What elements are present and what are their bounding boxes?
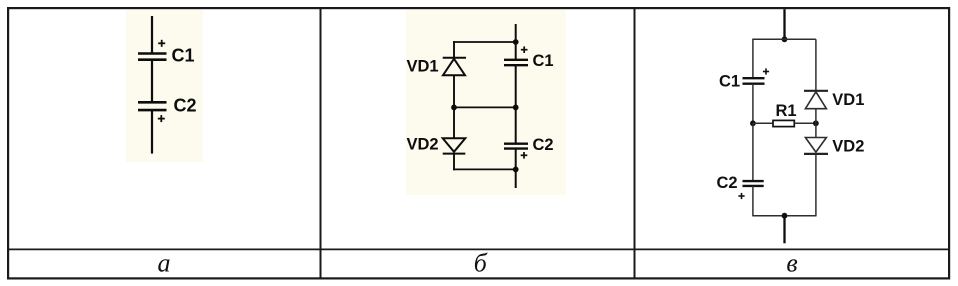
wire: panel в right branch lower segment <box>815 154 817 217</box>
capacitor C2 (panel а) <box>138 102 167 110</box>
wire: panel в top external lead <box>783 9 785 39</box>
polarity + of C1 (panel в) <box>763 68 769 74</box>
svg-text:VD2: VD2 <box>832 137 864 155</box>
svg-text:а: а <box>158 249 171 278</box>
diode VD1 (panel в) <box>804 91 828 109</box>
svg-text:VD1: VD1 <box>407 57 439 75</box>
svg-text:VD1: VD1 <box>832 91 864 109</box>
junction: panel в middle-left node <box>750 120 756 126</box>
wire: panel а segment between C1 and C2 <box>151 60 153 103</box>
wire: panel б left branch lower segment <box>453 154 455 171</box>
capacitor C2 (panel б) <box>504 144 528 149</box>
wire: panel б top rail <box>453 41 516 43</box>
capacitor C1 (panel б) <box>504 60 528 65</box>
svg-text:C2: C2 <box>533 136 554 154</box>
diode VD1 (panel б) <box>443 58 466 75</box>
capacitor C2 (panel в) <box>743 181 764 186</box>
svg-text:VD2: VD2 <box>407 136 439 154</box>
wire: panel б middle rail <box>454 106 516 108</box>
svg-text:R1: R1 <box>776 102 797 120</box>
wire: panel в left branch upper segment <box>752 39 754 78</box>
junction: panel в top node <box>782 36 788 42</box>
junction: panel в bottom node <box>782 213 788 219</box>
svg-text:C1: C1 <box>172 46 195 66</box>
wire: panel б left branch upper segment <box>453 41 455 57</box>
wire: panel в bottom rail <box>753 215 816 217</box>
wire: panel в left branch between middle rail and C2 <box>752 123 754 180</box>
wire: panel б left branch middle segment <box>453 75 455 138</box>
polarity + of C1 (panel а) <box>158 40 165 47</box>
polarity + of C2 (panel а) <box>158 115 165 122</box>
junction: panel б top node <box>513 39 519 45</box>
wire: panel б top external lead <box>515 24 517 42</box>
svg-text:б: б <box>474 249 488 278</box>
wire: panel в right branch upper segment <box>815 39 817 90</box>
wire: panel в left branch between C1 and middle rail <box>752 84 754 124</box>
capacitor C1 (panel в) <box>743 78 765 84</box>
wire: panel б right branch lower segment <box>515 149 517 170</box>
svg-text:C1: C1 <box>719 72 740 90</box>
polarity + of C1 (panel б) <box>521 46 528 53</box>
polarity + of C2 (panel в) <box>738 193 744 199</box>
junction: panel в middle-right node <box>813 120 819 126</box>
wire: panel в middle rail left of R1 <box>753 122 773 124</box>
diode VD2 (panel б) <box>443 138 466 153</box>
junction: panel б middle-left node <box>451 105 457 111</box>
wire: panel б right branch upper segment <box>515 42 517 59</box>
wire: panel а bottom lead from C2 <box>151 110 153 154</box>
wire: panel б bottom rail <box>453 168 516 170</box>
wire: panel в left branch lower segment <box>752 186 754 217</box>
resistor R1 <box>773 120 794 126</box>
svg-text:C1: C1 <box>533 52 554 70</box>
junction: panel б bottom node <box>513 167 519 173</box>
svg-text:C2: C2 <box>717 174 738 192</box>
junction: panel б middle-right node <box>513 105 519 111</box>
svg-text:C2: C2 <box>174 95 197 115</box>
svg-text:в: в <box>786 249 797 278</box>
wire: panel а top lead into C1 <box>151 16 153 54</box>
wire: panel б bottom external lead <box>515 169 517 188</box>
diode VD2 (panel в) <box>804 138 828 154</box>
polarity + of C2 (panel б) <box>521 152 528 159</box>
wire: panel в bottom external lead <box>783 216 785 244</box>
capacitor C1 (panel а) <box>138 54 167 60</box>
wire: panel б right branch between C1 and C2 <box>515 65 517 143</box>
wire: panel в right branch between VD1 and middle rail <box>815 109 817 138</box>
wire: panel в middle rail right of R1 <box>794 122 816 124</box>
wire: panel в top rail <box>753 38 816 40</box>
